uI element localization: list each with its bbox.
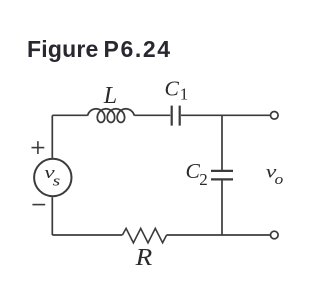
svg-text:o: o [275,172,284,188]
svg-text:L: L [103,83,117,109]
svg-text:FigureP6.24: FigureP6.24 [27,36,172,62]
svg-text:C: C [165,77,180,101]
svg-text:s: s [53,173,61,189]
svg-text:R: R [134,245,152,271]
svg-text:1: 1 [180,84,189,103]
svg-text:2: 2 [199,170,208,189]
